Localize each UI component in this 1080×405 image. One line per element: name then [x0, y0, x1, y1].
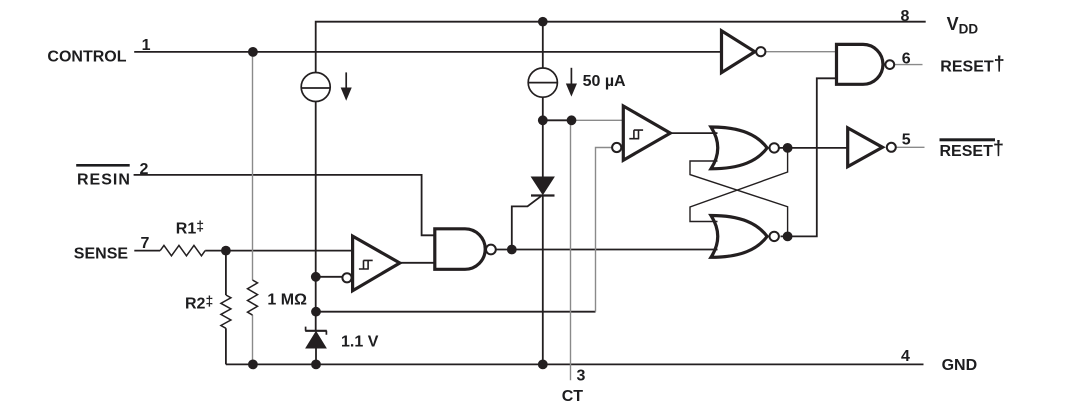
svg-text:1 MΩ: 1 MΩ: [267, 292, 307, 309]
svg-text:SENSE: SENSE: [74, 246, 129, 263]
svg-text:5: 5: [902, 132, 911, 149]
svg-text:GND: GND: [942, 357, 978, 374]
svg-text:2: 2: [140, 161, 149, 178]
svg-text:CT: CT: [562, 388, 584, 405]
svg-text:7: 7: [141, 235, 150, 252]
svg-text:RESIN: RESIN: [77, 171, 131, 188]
svg-text:1.1 V: 1.1 V: [341, 334, 379, 351]
svg-text:3: 3: [577, 368, 586, 385]
svg-text:CONTROL: CONTROL: [47, 49, 126, 66]
svg-text:1: 1: [142, 37, 151, 54]
svg-text:6: 6: [902, 51, 911, 68]
svg-text:50 µA: 50 µA: [583, 73, 626, 90]
svg-text:4: 4: [901, 348, 910, 365]
svg-text:8: 8: [901, 8, 910, 25]
